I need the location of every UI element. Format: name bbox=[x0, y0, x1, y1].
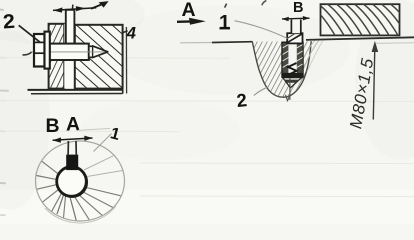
bolt hex head bbox=[34, 34, 45, 67]
svg-text:B: B bbox=[293, 0, 303, 16]
pin hole channel bbox=[64, 24, 75, 89]
right bar (hatched) bbox=[321, 4, 400, 35]
faint paper ruling bbox=[0, 58, 414, 197]
tick mark near top bbox=[262, 1, 267, 6]
view direction arrow bbox=[177, 20, 192, 23]
hole conical bottom bbox=[283, 78, 302, 88]
pocket bottom tick bbox=[286, 95, 291, 101]
marker crossbar bbox=[282, 17, 310, 20]
dimension arrow M80 bbox=[373, 48, 375, 120]
bolt shank bbox=[50, 44, 89, 60]
pocket resketch strokes bbox=[304, 39, 321, 69]
spring zigzag bbox=[287, 63, 297, 76]
right block (hatched) bbox=[75, 25, 123, 89]
screw stem lines bbox=[67, 141, 69, 156]
centerline hook bbox=[23, 52, 32, 55]
bolt neck and cone tip bbox=[89, 46, 108, 58]
spokes bbox=[84, 156, 123, 177]
leader 4 bbox=[122, 31, 127, 33]
svg-text:1: 1 bbox=[219, 12, 230, 34]
mid arrowhead bbox=[76, 6, 86, 11]
screw bottom band bbox=[282, 73, 303, 77]
screw stem above surface bbox=[291, 20, 301, 34]
paper smudge left edge bbox=[0, 10, 8, 216]
block right edge second line bbox=[125, 27, 127, 94]
thread band left bbox=[283, 43, 289, 73]
faint line right bbox=[376, 42, 414, 45]
section line above pin bbox=[53, 8, 96, 11]
svg-text:A: A bbox=[66, 113, 80, 135]
apostrophe tick above 1 bbox=[225, 4, 227, 8]
svg-text:B: B bbox=[46, 115, 60, 137]
svg-text:4: 4 bbox=[126, 24, 136, 42]
svg-text:A: A bbox=[182, 0, 196, 21]
left plate (hatched) bbox=[49, 24, 65, 89]
pocket blob hatched bbox=[252, 41, 311, 97]
screw body bbox=[282, 42, 303, 77]
screw head bbox=[287, 33, 302, 43]
center line to pocket tip bbox=[289, 77, 291, 100]
svg-text:2: 2 bbox=[2, 10, 16, 33]
pocket outline bbox=[252, 41, 311, 97]
section line B-A bbox=[53, 138, 93, 140]
surface line left (faint) bbox=[180, 42, 214, 44]
bolt centerline bbox=[30, 51, 105, 53]
svg-text:2: 2 bbox=[235, 89, 247, 111]
leader 2 bbox=[19, 25, 41, 42]
leader 1 (view 3) bbox=[235, 21, 288, 39]
left arrowhead bbox=[53, 7, 62, 12]
hub ring bbox=[57, 167, 87, 197]
thread band right bbox=[297, 43, 303, 73]
tick above pin bbox=[71, 5, 74, 11]
outer rim bbox=[36, 141, 125, 221]
leader 1 (view 2) bbox=[94, 134, 112, 152]
washer bbox=[45, 32, 50, 69]
leader 2 (view 3) bbox=[254, 87, 269, 96]
pin in hole bbox=[66, 10, 75, 44]
surface line right bbox=[306, 37, 414, 40]
surface line left (dark) bbox=[212, 41, 253, 44]
base plate bbox=[28, 89, 124, 91]
set screw (plan view) bbox=[66, 155, 78, 171]
corner arrow bbox=[91, 4, 102, 9]
